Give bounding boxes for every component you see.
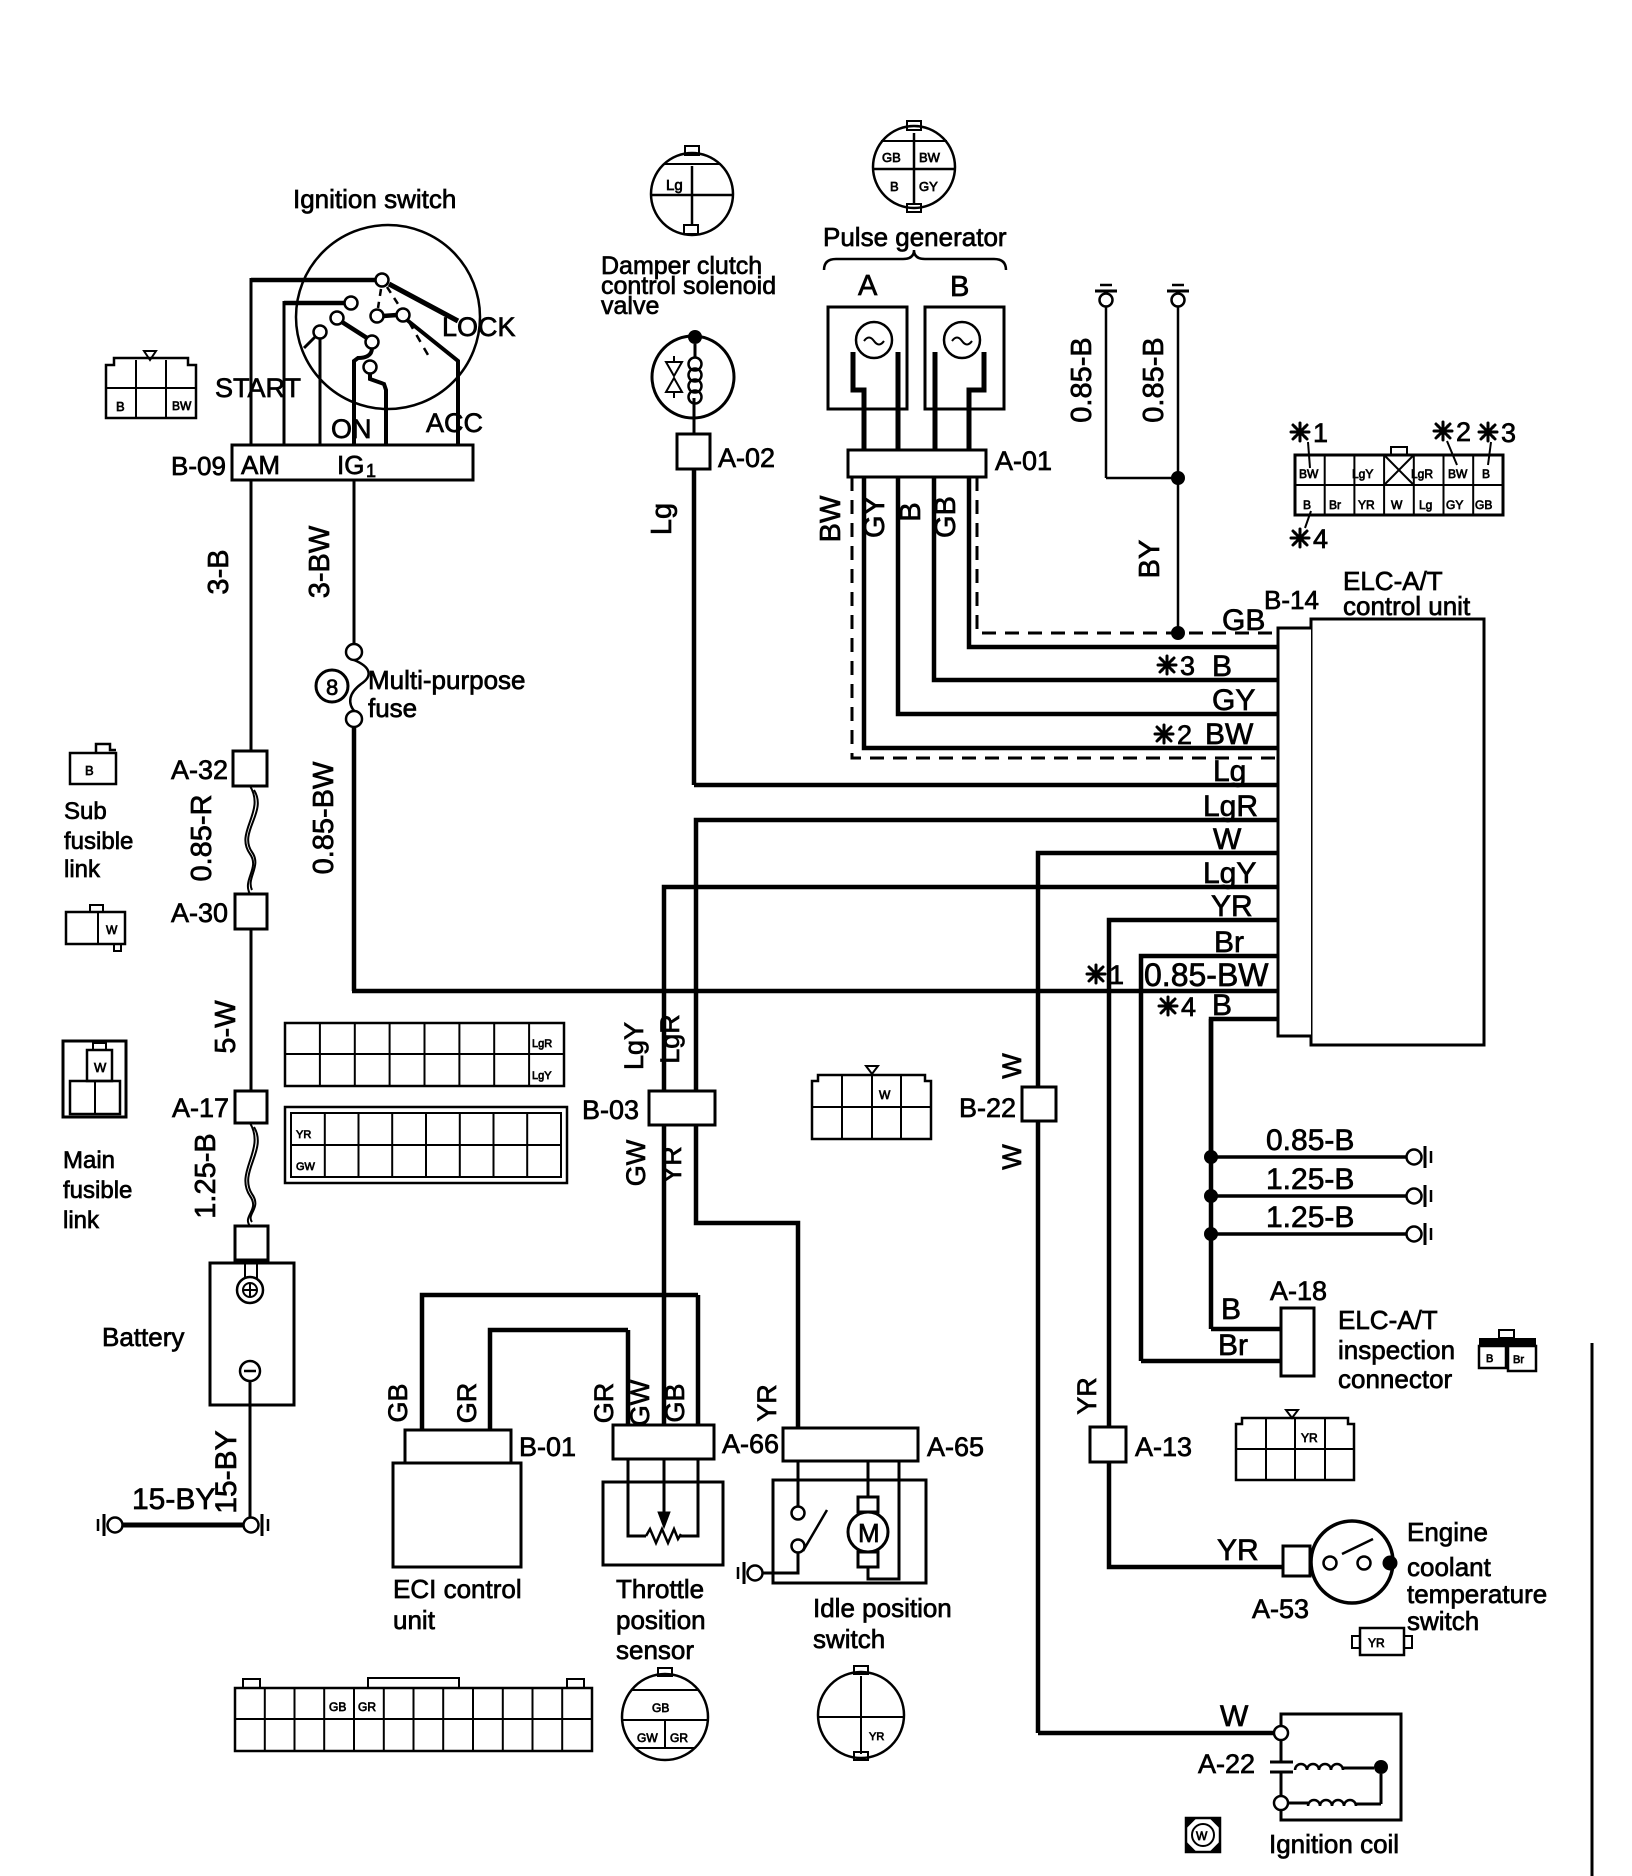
svg-text:3-B: 3-B — [203, 549, 235, 594]
svg-text:A-53: A-53 — [1252, 1594, 1309, 1624]
connector (W) small bottom — [1186, 1818, 1220, 1852]
shield dashed wire (right) — [977, 477, 1278, 633]
svg-text:GB: GB — [1475, 498, 1492, 512]
svg-text:position: position — [616, 1605, 706, 1635]
reference mark 2 — [1434, 422, 1452, 440]
reference mark 4 — [1291, 529, 1309, 547]
svg-text:BW: BW — [1448, 467, 1468, 481]
dashed link C1 to C6 — [387, 287, 400, 307]
wire YR riser to ELC — [1109, 920, 1278, 1427]
8 cavity connector (YR) — [1236, 1418, 1354, 1480]
svg-text:3-BW: 3-BW — [304, 525, 336, 598]
svg-text:BW: BW — [172, 399, 192, 413]
wire W to ignition coil — [1038, 1731, 1275, 1736]
connector B-09 — [232, 445, 473, 480]
svg-text:switch: switch — [1407, 1606, 1479, 1636]
svg-text:LgR: LgR — [532, 1038, 552, 1050]
svg-text:Lg: Lg — [666, 177, 683, 194]
wire LgR from B-03 to ELC — [696, 820, 1278, 1091]
ignition coil case outline — [1281, 1714, 1401, 1820]
wire GR from B-01 to A-66 — [490, 1330, 628, 1430]
8 cavity connector (W) — [812, 1075, 931, 1139]
svg-text:W: W — [1391, 498, 1403, 512]
svg-text:GB: GB — [383, 1383, 413, 1422]
svg-text:2: 2 — [1456, 417, 1471, 447]
svg-text:YR: YR — [1072, 1377, 1102, 1415]
secondary winding — [1288, 1802, 1308, 1805]
svg-text:ECI control: ECI control — [393, 1574, 522, 1604]
svg-text:A-22: A-22 — [1198, 1749, 1255, 1779]
svg-text:GY: GY — [1446, 498, 1463, 512]
ignition switch rotor lever (thick diagonal from C1) — [389, 284, 458, 321]
svg-text:inspection: inspection — [1338, 1335, 1455, 1365]
connector A-30 — [235, 894, 267, 929]
ignition switch SW1 body — [296, 225, 480, 409]
svg-text:YR: YR — [752, 1384, 782, 1422]
svg-text:GR: GR — [589, 1383, 619, 1424]
connector (B/BW) by ignition switch — [106, 358, 196, 418]
svg-text:A: A — [858, 270, 878, 302]
wire: C4 down to B-09 — [319, 338, 322, 445]
svg-text:B-22: B-22 — [959, 1093, 1016, 1123]
brace over pulse generator A/B — [824, 250, 1006, 270]
switch contacts — [1324, 1557, 1337, 1570]
svg-text:link: link — [64, 856, 101, 883]
ECI control unit box — [393, 1463, 521, 1567]
damper clutch solenoid connector (round, Lg) — [651, 153, 733, 235]
connector A-32 — [233, 751, 267, 786]
solenoid coil symbol — [689, 358, 702, 371]
bottom 24 cavity connector strip — [235, 1688, 592, 1751]
main fusible link connector — [63, 1041, 126, 1117]
pulse generator A box — [828, 307, 907, 409]
right page border line — [1591, 1343, 1594, 1876]
wire 3-B (AM down) — [250, 480, 253, 751]
svg-text:1: 1 — [1313, 418, 1328, 448]
dashed link C1 to C5 — [378, 289, 381, 308]
connector with reference marks (14 cavity) — [1295, 455, 1503, 515]
wire B down to grounds and A-18 — [1209, 1019, 1214, 1329]
svg-text:YR: YR — [1217, 1534, 1259, 1567]
wire BW (ref2) label — [1155, 725, 1173, 743]
wire GW from B-03 to A-66 — [662, 1125, 667, 1425]
connector A-13 — [1090, 1427, 1126, 1462]
bridge wire C5-C6 — [383, 315, 397, 316]
svg-text:0.85-R: 0.85-R — [186, 794, 218, 881]
svg-text:Br: Br — [1218, 1329, 1248, 1362]
wire GB from B-01 to A-66 — [422, 1295, 698, 1430]
connector (YR) small below A-53 — [1360, 1628, 1404, 1655]
svg-text:1: 1 — [1109, 960, 1124, 990]
wire: C2 to B-09 — [284, 301, 345, 306]
svg-text:8: 8 — [326, 675, 338, 700]
svg-text:A-65: A-65 — [927, 1432, 984, 1462]
ignition switch contact C2 (START feed) — [345, 297, 358, 310]
ignition switch contact C1 (battery common) — [376, 274, 389, 287]
sensor wiper arrow GW — [663, 1459, 666, 1514]
multi-purpose fuse F8 — [346, 644, 362, 660]
ground left of battery — [108, 1518, 123, 1533]
svg-text:A-66: A-66 — [722, 1429, 779, 1459]
wire YR from B-03 to A-65 — [696, 1125, 798, 1428]
connector B-03 — [649, 1091, 715, 1125]
wire 0.85-BW from fuse down then right to ELC — [352, 727, 357, 991]
svg-text:link: link — [63, 1207, 100, 1234]
connector A-66 — [613, 1425, 714, 1459]
svg-text:AM: AM — [241, 450, 280, 480]
connector (W) left middle — [66, 912, 125, 944]
svg-text:GB: GB — [329, 1700, 346, 1714]
capacitor — [1280, 1740, 1283, 1762]
svg-text:Lg: Lg — [1213, 755, 1246, 788]
ground at idle switch — [748, 1566, 763, 1581]
crossed-out cavity — [1384, 455, 1414, 485]
battery negative terminal — [240, 1361, 260, 1381]
shield dashed wire (left) — [852, 477, 1278, 758]
ignition switch contact C4 — [314, 326, 327, 339]
wire B into A-18 — [1211, 1327, 1281, 1332]
ignition coil primary terminal — [1274, 1726, 1288, 1740]
idle switch contacts — [797, 1461, 800, 1506]
svg-text:GW: GW — [625, 1379, 655, 1426]
svg-text:1.25-B: 1.25-B — [1266, 1163, 1354, 1196]
svg-text:GW: GW — [621, 1139, 651, 1186]
svg-text:4: 4 — [1181, 992, 1196, 1022]
svg-text:W: W — [997, 1053, 1027, 1079]
svg-text:Pulse generator: Pulse generator — [823, 222, 1007, 252]
svg-text:Lg: Lg — [646, 503, 678, 535]
svg-text:A-17: A-17 — [172, 1093, 229, 1123]
fuse/junction table 1 — [285, 1023, 564, 1086]
ignition switch contact C7 (IG1) — [366, 336, 379, 349]
wire Br riser to ELC — [1141, 956, 1278, 1361]
svg-text:switch: switch — [813, 1624, 885, 1654]
svg-text:Idle position: Idle position — [813, 1593, 952, 1623]
ground G2 (0.85-B) — [1172, 294, 1185, 307]
svg-text:W: W — [94, 1060, 107, 1075]
svg-text:LgY: LgY — [532, 1070, 552, 1082]
svg-text:Br: Br — [1329, 498, 1341, 512]
svg-text:B: B — [895, 502, 927, 521]
wire 15-BY battery to ground — [249, 1381, 252, 1517]
wire GR riser to A-66 — [626, 1330, 631, 1425]
svg-text:0.85-B: 0.85-B — [1266, 1124, 1354, 1157]
svg-text:Main: Main — [63, 1147, 115, 1174]
svg-text:ACC: ACC — [426, 408, 483, 438]
battery terminal connector — [235, 1226, 268, 1260]
wire 5-W — [250, 929, 253, 1091]
idle position switch box — [773, 1480, 926, 1583]
svg-text:2: 2 — [1177, 720, 1192, 750]
junction wire between grounds — [1106, 477, 1178, 480]
svg-text:1.25-B: 1.25-B — [1266, 1201, 1354, 1234]
battery positive terminal — [237, 1277, 263, 1303]
svg-text:GY: GY — [859, 496, 891, 538]
svg-text:Multi-purpose: Multi-purpose — [368, 665, 526, 695]
contact C4 tail — [304, 337, 315, 348]
svg-text:IG: IG — [337, 450, 364, 480]
svg-text:15-BY: 15-BY — [132, 1483, 215, 1516]
svg-text:sensor: sensor — [616, 1635, 694, 1665]
connector B-14 strip — [1278, 628, 1311, 1036]
svg-text:A-01: A-01 — [995, 446, 1052, 476]
svg-text:W: W — [106, 923, 118, 937]
svg-text:YR: YR — [1301, 1431, 1318, 1445]
wire LgY from B-03 to ELC — [664, 887, 1278, 1091]
svg-text:A-30: A-30 — [171, 898, 228, 928]
reference mark 3 — [1479, 423, 1497, 441]
connector A-01 — [848, 450, 986, 477]
svg-text:0.85-BW: 0.85-BW — [308, 761, 340, 874]
svg-text:B: B — [1303, 498, 1311, 512]
crossover squiggle 1.25-B — [245, 1123, 254, 1226]
sub fusible link connector — [70, 753, 116, 784]
pulse generator B box — [925, 307, 1004, 409]
ground wire 1.25-B — [1211, 1194, 1407, 1198]
ignition switch contact C3 — [331, 312, 344, 325]
round connector (YR) — [818, 1672, 904, 1758]
svg-text:GB: GB — [660, 1383, 690, 1422]
svg-text:Battery: Battery — [102, 1322, 184, 1352]
svg-text:BW: BW — [1205, 718, 1254, 751]
connector B-22 — [1022, 1087, 1056, 1121]
svg-text:GB: GB — [930, 496, 962, 538]
wire YR from A-13 to A-53 — [1109, 1462, 1283, 1567]
bridge wire C3-C7 — [342, 322, 367, 338]
wire W from B-22 riser to ELC — [1038, 853, 1278, 1733]
svg-text:GY: GY — [919, 179, 938, 194]
wire GB riser to A-66 — [696, 1295, 701, 1425]
fuse/junction table 2 — [285, 1107, 567, 1183]
svg-text:GY: GY — [1212, 684, 1255, 717]
svg-text:YR: YR — [1358, 498, 1375, 512]
svg-text:0.85-B: 0.85-B — [1138, 337, 1170, 422]
wire B from A-01 to ELC — [934, 477, 1278, 680]
ground G1 (0.85-B) — [1100, 294, 1113, 307]
svg-text:A-18: A-18 — [1270, 1276, 1327, 1306]
svg-text:W: W — [997, 1144, 1027, 1170]
svg-text:GW: GW — [637, 1731, 658, 1745]
connector B-01 — [405, 1430, 511, 1463]
svg-text:unit: unit — [393, 1605, 436, 1635]
wire 0.85-BW (ref1) label — [1087, 965, 1105, 983]
svg-text:B-14: B-14 — [1264, 585, 1319, 615]
wire BW from A-01 to ELC — [864, 477, 1278, 748]
sensor resistor — [646, 1529, 681, 1543]
svg-text:B: B — [85, 763, 94, 778]
reference mark 1 — [1291, 423, 1309, 441]
svg-text:valve: valve — [601, 292, 659, 320]
ignition switch contact C6 (ACC) — [397, 309, 410, 322]
svg-text:LgR: LgR — [1411, 467, 1433, 481]
pulse generator connector (round) — [873, 126, 955, 208]
svg-text:B-09: B-09 — [171, 451, 226, 481]
ground at battery — [244, 1518, 259, 1533]
primary winding — [1295, 1764, 1343, 1770]
engine coolant temperature switch body — [1311, 1521, 1393, 1603]
ground wire 1.25-B (2) — [1211, 1232, 1407, 1236]
svg-text:W: W — [1196, 1829, 1208, 1843]
svg-text:Sub: Sub — [64, 798, 107, 825]
svg-text:B-01: B-01 — [519, 1432, 576, 1462]
svg-text:W: W — [879, 1088, 891, 1102]
svg-text:Ignition coil: Ignition coil — [1269, 1829, 1399, 1859]
svg-text:A-02: A-02 — [718, 443, 775, 473]
connector (B/Br) small right — [1479, 1338, 1536, 1346]
wire Lg from A-02 to ELC — [692, 469, 697, 785]
connector A-53 — [1283, 1546, 1310, 1576]
svg-text:YR: YR — [657, 1146, 687, 1184]
ignition switch contact C8 — [364, 361, 377, 374]
svg-text:B: B — [1212, 650, 1232, 683]
svg-text:GB: GB — [882, 150, 901, 165]
pulse generator A coil source — [856, 322, 892, 358]
svg-text:4: 4 — [1313, 524, 1328, 554]
svg-text:LgR: LgR — [655, 1014, 685, 1064]
wire B (ref4) label — [1159, 997, 1177, 1015]
wire 3-BW (IG1 down to fuse) — [353, 480, 356, 645]
svg-text:3: 3 — [1180, 651, 1195, 681]
svg-text:LOCK: LOCK — [442, 312, 516, 342]
svg-text:5-W: 5-W — [210, 1000, 242, 1054]
svg-text:BW: BW — [1299, 467, 1319, 481]
svg-text:GB: GB — [652, 1701, 669, 1715]
svg-text:Ignition switch: Ignition switch — [293, 184, 456, 214]
svg-text:B: B — [1221, 1293, 1241, 1326]
damper clutch control solenoid valve L1 — [652, 336, 734, 418]
wire B (ref3) label — [1158, 656, 1176, 674]
ignition coil secondary terminal — [1274, 1796, 1288, 1810]
svg-text:B: B — [1486, 1353, 1493, 1365]
connector A-65 — [783, 1428, 918, 1461]
svg-text:temperature: temperature — [1407, 1579, 1547, 1609]
svg-text:Engine: Engine — [1407, 1517, 1488, 1547]
sensor wiring GR — [628, 1459, 646, 1536]
svg-text:M: M — [858, 1518, 880, 1548]
svg-text:fusible: fusible — [64, 828, 133, 855]
sensor wiring GB — [680, 1459, 698, 1536]
svg-text:0.85-BW: 0.85-BW — [1144, 957, 1269, 993]
svg-text:GR: GR — [452, 1383, 482, 1424]
svg-text:control unit: control unit — [1343, 591, 1471, 621]
svg-text:B: B — [890, 179, 899, 194]
svg-text:A-13: A-13 — [1135, 1432, 1192, 1462]
svg-text:Lg: Lg — [1419, 498, 1432, 512]
svg-text:ON: ON — [331, 414, 372, 444]
svg-text:B: B — [1482, 467, 1490, 481]
wire Br into A-18 — [1141, 1359, 1281, 1364]
wire 15-BY horizontal — [123, 1523, 244, 1528]
svg-text:Throttle: Throttle — [616, 1574, 704, 1604]
svg-text:connector: connector — [1338, 1364, 1453, 1394]
ELC-A/T control unit box — [1311, 619, 1484, 1045]
ground wire 0.85-B — [1211, 1155, 1407, 1159]
svg-text:Br: Br — [1513, 1354, 1524, 1366]
wire GY from A-01 to ELC — [898, 477, 1278, 714]
connector A-02 — [677, 434, 710, 469]
idle speed motor M — [867, 1461, 870, 1497]
ignition switch contact C5 — [371, 310, 384, 323]
wire: C6 diagonal ACC down to B-09 — [407, 320, 458, 445]
valve symbol — [666, 362, 682, 392]
wire B (ref4) riser to ELC — [1211, 1019, 1278, 1157]
svg-text:BW: BW — [919, 150, 941, 165]
wire: AM feed to C1 — [251, 278, 376, 283]
svg-text:GR: GR — [358, 1700, 376, 1714]
svg-text:1.25-B: 1.25-B — [190, 1133, 222, 1218]
throttle position sensor box — [603, 1482, 723, 1565]
svg-text:B: B — [950, 271, 969, 303]
svg-text:0.85-B: 0.85-B — [1066, 337, 1098, 422]
svg-text:START: START — [215, 373, 301, 403]
svg-text:BY: BY — [1134, 540, 1166, 579]
dashed tail beyond C6 — [409, 322, 428, 355]
svg-text:coolant: coolant — [1407, 1552, 1492, 1582]
wire GB from A-01 to ELC — [969, 477, 1278, 647]
svg-text:BW: BW — [815, 495, 847, 542]
svg-text:GB: GB — [1222, 604, 1265, 637]
svg-text:LgY: LgY — [619, 1022, 649, 1070]
svg-text:B-03: B-03 — [582, 1095, 639, 1125]
wire to A-02 — [693, 398, 696, 434]
wire: C7 (IG1) down to B-09 — [354, 348, 372, 445]
wire: C8 down to B-09 — [370, 373, 386, 445]
pulse generator B coil source — [944, 322, 980, 358]
round connector (GB/GW/GR) — [622, 1674, 708, 1760]
svg-text:W: W — [1220, 1700, 1249, 1733]
svg-text:GW: GW — [296, 1161, 316, 1173]
svg-text:YR: YR — [869, 1731, 884, 1743]
svg-text:fuse: fuse — [368, 693, 417, 723]
svg-text:YR: YR — [296, 1129, 311, 1141]
svg-text:fusible: fusible — [63, 1177, 132, 1204]
svg-text:GR: GR — [670, 1731, 688, 1745]
crossover squiggle 0.85-R — [245, 786, 254, 894]
svg-text:A-32: A-32 — [171, 755, 228, 785]
svg-text:B: B — [116, 399, 125, 414]
svg-text:1: 1 — [366, 461, 376, 481]
connector A-18 — [1281, 1308, 1314, 1376]
connector A-17 — [235, 1091, 267, 1123]
svg-text:YR: YR — [1368, 1636, 1385, 1650]
battery B1 — [244, 1260, 246, 1279]
svg-text:ELC-A/T: ELC-A/T — [1338, 1305, 1438, 1335]
svg-text:3: 3 — [1501, 418, 1516, 448]
svg-text:LgY: LgY — [1352, 467, 1373, 481]
